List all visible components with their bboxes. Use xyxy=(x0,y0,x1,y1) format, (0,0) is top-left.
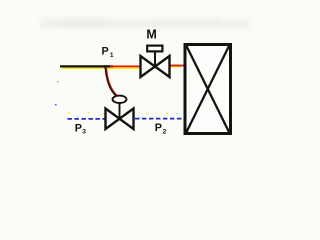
label P2 xyxy=(155,122,167,136)
wire: pilot curve from junction to handwheel xyxy=(106,67,118,96)
valve V1 motor valve body xyxy=(141,56,170,77)
node junction at P1 xyxy=(104,65,106,68)
load box diagonal 1 xyxy=(187,46,230,132)
svg-text:2: 2 xyxy=(163,128,167,135)
wire: red pipe segment into valve V1 xyxy=(110,65,141,67)
label P3 xyxy=(75,123,87,136)
valve V2 stem xyxy=(119,103,121,119)
label M xyxy=(146,27,156,41)
valve V1 actuator stem xyxy=(154,52,156,67)
svg-text:M: M xyxy=(146,27,156,41)
load box (crossed rectangle) xyxy=(185,45,231,134)
svg-text:1: 1 xyxy=(110,52,114,59)
svg-text:P: P xyxy=(102,45,109,57)
wire: red pipe segment valve V1 to load xyxy=(170,65,186,67)
valve V2 handwheel ellipse xyxy=(113,96,127,103)
valve V2 manual valve body xyxy=(106,109,134,130)
svg-text:P: P xyxy=(75,123,82,135)
wire: yellow highlight under supply pipe xyxy=(62,67,181,69)
wire: supply pipe black segment xyxy=(60,65,113,67)
svg-text:3: 3 xyxy=(82,129,86,136)
load box diagonal 2 xyxy=(187,46,230,132)
wire: blue dashed line P2 segment xyxy=(135,118,184,120)
scan noise band (decorative) xyxy=(40,18,250,29)
label P1 xyxy=(102,45,114,59)
wire: blue dashed line P3 segment xyxy=(68,118,106,120)
valve V1 actuator box xyxy=(147,46,162,52)
svg-text:P: P xyxy=(155,122,162,134)
